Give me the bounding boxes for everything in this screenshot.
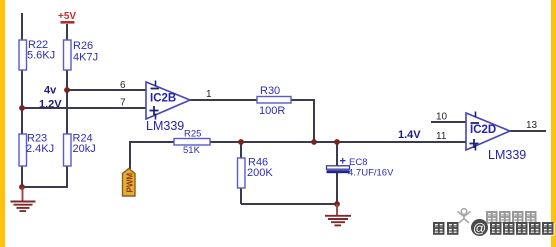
wire: 1.2V node to IC2B pin 7 [22, 107, 146, 109]
port PWM [123, 169, 136, 197]
ground left [11, 187, 36, 211]
svg-text:4K7J: 4K7J [73, 52, 98, 64]
junction dot ground left [19, 184, 25, 190]
svg-text:R25: R25 [184, 129, 201, 140]
watermark line 1 figure [459, 210, 472, 224]
svg-text:+5V: +5V [58, 11, 76, 22]
svg-text:100R: 100R [259, 105, 285, 117]
wire: IC2D pin 10 stub [431, 121, 466, 123]
svg-text:R26: R26 [73, 40, 93, 52]
svg-text:51K: 51K [183, 145, 201, 156]
wire: corner drop from R30 to main node [313, 99, 315, 142]
svg-text:200K: 200K [247, 167, 273, 179]
right yellow border bar [551, 0, 556, 247]
wire: EC8 branch vertical bottom [336, 173, 338, 204]
svg-text:IC2B: IC2B [150, 93, 176, 105]
svg-text:20kJ: 20kJ [73, 143, 96, 155]
resistor R23 [19, 134, 27, 166]
junction dot EC8 top [334, 139, 340, 145]
svg-text:6: 6 [120, 80, 126, 91]
resistor R22 [19, 40, 27, 70]
wire: R30 right lead to corner [290, 99, 314, 101]
svg-text:1.4V: 1.4V [398, 129, 421, 141]
svg-text:1.2V: 1.2V [39, 99, 62, 111]
ground EC8 [325, 204, 351, 225]
wire: main horizontal net (R25 - R46 - EC8 - IC2D pin 11) [130, 141, 466, 143]
wire: +5V / R26 / R24 vertical rail [66, 24, 68, 187]
resistor R46 [238, 158, 246, 188]
capacitor EC8 [327, 156, 395, 179]
wire: IC2D output pin 13 [509, 130, 546, 132]
wire: IC2B output pin 1 to R30 [190, 99, 257, 101]
svg-text:11: 11 [436, 131, 447, 142]
svg-text:LM339: LM339 [146, 119, 184, 133]
wire: EC8 branch vertical top [336, 142, 338, 166]
svg-text:LM339: LM339 [488, 148, 526, 162]
svg-text:1: 1 [206, 89, 212, 100]
svg-text:R30: R30 [260, 85, 280, 97]
junction dot R30 drop [311, 139, 317, 145]
resistor R25 [174, 139, 210, 146]
svg-text:4v: 4v [44, 85, 57, 97]
svg-text:13: 13 [526, 120, 538, 131]
resistor R30 [257, 97, 291, 104]
watermark line 2 头条 [434, 223, 460, 236]
wire: 4v node to IC2B pin 6 [67, 89, 146, 91]
op-amp IC2D [466, 112, 526, 163]
wire: bottom net R46 to EC8 ground [241, 203, 337, 205]
svg-text:7: 7 [120, 98, 126, 109]
junction dot R46 top [238, 139, 244, 145]
watermark line 1 text 維修人家 [487, 212, 538, 225]
wire: R46 branch vertical [240, 142, 242, 204]
op-amp IC2B [146, 81, 190, 134]
svg-text:2.4KJ: 2.4KJ [26, 143, 54, 155]
svg-text:5.6KJ: 5.6KJ [27, 50, 55, 62]
wire: bottom jumper from left rail to R24 branch [22, 186, 68, 188]
svg-text:EC8: EC8 [349, 157, 367, 168]
junction node 4v (dot) [64, 87, 70, 93]
junction dot EC8 bottom [334, 201, 340, 207]
wire: left vertical rail (R22/R23 branch) [21, 13, 23, 187]
resistor R26 [64, 40, 72, 70]
svg-text:4.7UF/16V: 4.7UF/16V [348, 168, 394, 179]
wire: drop to PWM port [129, 141, 131, 169]
resistor R24 [64, 134, 72, 166]
svg-text:10: 10 [436, 112, 448, 123]
svg-text:@: @ [473, 221, 486, 236]
power +5V symbol [58, 11, 76, 24]
junction node 1.2V (dot) [19, 105, 25, 111]
svg-text:PWM: PWM [126, 173, 135, 193]
left yellow border bar [0, 0, 5, 247]
svg-text:+: + [340, 156, 346, 168]
watermark line 2 哥专修电器 [491, 223, 555, 236]
watermark line 2 @ logo [471, 219, 488, 236]
svg-text:IC2D: IC2D [470, 124, 496, 136]
